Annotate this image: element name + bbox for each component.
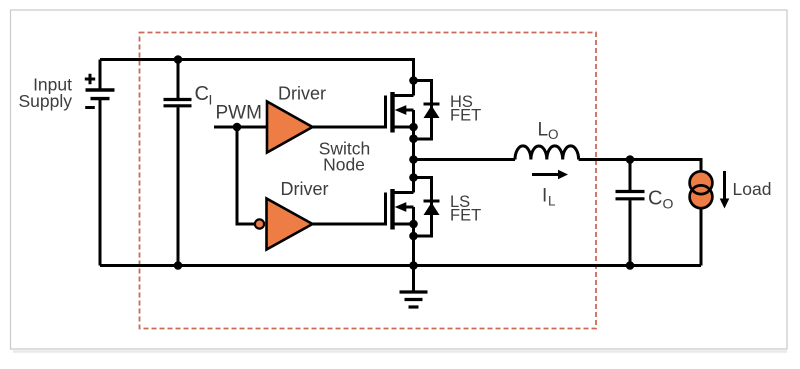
- transistor Q1 HS FET: [386, 92, 414, 133]
- svg-text:FET: FET: [450, 207, 481, 225]
- diode D2 LS body diode: [414, 178, 440, 237]
- inductor LO: [515, 146, 579, 160]
- battery V1 Input Supply: [85, 74, 115, 108]
- load current arrow: [720, 171, 730, 209]
- wire: LS source down to bottom rail: [412, 224, 415, 266]
- wire: bottom ground rail: [100, 264, 701, 267]
- svg-text:Driver: Driver: [278, 84, 326, 104]
- current source Load: [690, 171, 713, 208]
- svg-text:I: I: [209, 92, 213, 108]
- node: LS drain diode junction: [409, 173, 418, 182]
- node: HS source junction: [409, 123, 418, 132]
- node: bottom rail junction at LS FET: [409, 261, 418, 270]
- dashed controller boundary box: [140, 33, 597, 329]
- label IL: [542, 186, 556, 209]
- node: PWM junction: [233, 123, 242, 132]
- node: LS source junction: [409, 220, 418, 229]
- label Driver (U2): [281, 179, 329, 199]
- label Switch Node: [319, 139, 371, 175]
- svg-text:L: L: [548, 194, 556, 209]
- label LS FET: [450, 193, 481, 225]
- label CI: [195, 83, 213, 108]
- svg-text:C: C: [648, 188, 662, 210]
- wire: PWM branch down to driver U2: [237, 127, 254, 224]
- node: output node junction: [626, 155, 635, 164]
- wire: load bottom to bottom rail: [700, 208, 703, 266]
- node: HS diode anode junction: [409, 134, 418, 143]
- svg-text:C: C: [195, 83, 209, 105]
- op-amp driver U1: [267, 102, 313, 153]
- ground: [400, 266, 428, 308]
- wire: battery positive stub: [99, 60, 102, 89]
- svg-text:O: O: [548, 127, 559, 142]
- wire: top rail from battery to HS FET drain: [100, 60, 414, 96]
- label Load: [733, 179, 772, 199]
- node: CO bottom junction: [626, 261, 635, 270]
- label Input Supply: [18, 75, 72, 112]
- wire: inductor to output/load: [579, 160, 701, 172]
- svg-text:Supply: Supply: [18, 91, 72, 111]
- wire: driver U2 output to LS gate: [313, 223, 386, 226]
- node: CI bottom junction: [174, 261, 183, 270]
- svg-text:I: I: [542, 186, 547, 207]
- svg-text:L: L: [538, 119, 549, 140]
- wire: PWM input to driver U1: [214, 126, 267, 129]
- svg-text:O: O: [663, 196, 674, 212]
- inverter bubble on driver U2 input: [255, 219, 264, 228]
- label Driver (U1): [278, 84, 326, 104]
- label PWM: [216, 102, 262, 123]
- wire: driver U1 output to HS gate: [313, 126, 386, 129]
- node: HS drain diode junction: [409, 76, 418, 85]
- capacitor CO: [616, 160, 645, 266]
- diode D1 HS body diode: [414, 81, 440, 140]
- svg-text:Load: Load: [733, 179, 772, 199]
- capacitor CI: [164, 60, 192, 266]
- svg-text:Driver: Driver: [281, 179, 329, 199]
- wire: HS source down through switch node to LS drain: [412, 127, 415, 193]
- node: LS diode anode junction: [409, 232, 418, 241]
- label CO: [648, 188, 674, 212]
- op-amp driver U2: [267, 199, 313, 250]
- wire: battery negative stub down to bottom rail: [99, 99, 102, 266]
- svg-text:PWM: PWM: [216, 102, 262, 123]
- transistor Q2 LS FET: [386, 189, 414, 230]
- label IL current arrow: [532, 170, 568, 180]
- wire: switch node to inductor: [414, 158, 516, 161]
- svg-text:FET: FET: [450, 107, 481, 125]
- node: CI top junction: [174, 55, 183, 64]
- label HS FET: [450, 93, 481, 125]
- node: switch node junction: [409, 155, 418, 164]
- label LO: [538, 119, 559, 142]
- svg-text:Node: Node: [323, 155, 365, 175]
